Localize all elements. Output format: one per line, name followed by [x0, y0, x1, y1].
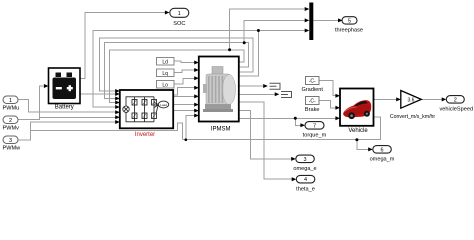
svg-text:Vehicle: Vehicle: [348, 128, 368, 134]
arrow into port3 omega_e: [291, 157, 296, 161]
svg-text:5: 5: [348, 19, 351, 25]
terminator 2: [281, 92, 292, 98]
constant Brake: [305, 97, 320, 114]
svg-text:Convert_m/s_km/hr: Convert_m/s_km/hr: [390, 114, 436, 120]
wire IPMSM omega_e out to port3: [239, 111, 294, 159]
wire mux input 2 branch: [244, 20, 308, 42]
junction dots: [185, 29, 359, 141]
terminator 1: [270, 83, 281, 89]
svg-text:PWMv: PWMv: [3, 126, 20, 132]
mux: [309, 3, 313, 41]
outport 6 omega_m: [370, 146, 395, 163]
svg-text:1: 1: [9, 98, 12, 104]
svg-text:Brake: Brake: [305, 107, 320, 113]
wire omega_m branch to port6: [357, 140, 371, 150]
wire IPMSM out6 to terminator2: [239, 93, 275, 95]
wire Gradient to Vehicle: [319, 81, 338, 96]
wire Vehicle speed out to gain: [374, 98, 400, 100]
wire feedback up into IPMSM in7: [186, 116, 196, 140]
arrow into battery: [44, 84, 49, 88]
wire PWMv to inverter: [18, 117, 119, 119]
inport 3 PWMw: [3, 136, 22, 152]
inport 1 PWMu: [3, 96, 20, 112]
svg-text:PWMu: PWMu: [3, 106, 20, 112]
svg-text:3.6: 3.6: [408, 97, 415, 103]
svg-text:omega_m: omega_m: [370, 157, 395, 163]
wire PWMu to inverter: [18, 100, 119, 113]
svg-text:6: 6: [380, 147, 383, 153]
svg-text:threephase: threephase: [335, 28, 363, 34]
svg-text:Lq: Lq: [162, 71, 168, 77]
outport 2 vehicleSpeed: [440, 96, 474, 113]
constant Gradient: [301, 77, 323, 94]
wire line A: IPMSM out2 to inverter in3: [105, 43, 249, 99]
load oval and fan: [158, 101, 168, 108]
svg-text:2: 2: [454, 97, 457, 103]
transistor cells bottom row: [132, 113, 137, 119]
arrows into Vehicle: [335, 94, 340, 98]
svg-text:torque_m: torque_m: [303, 133, 327, 139]
svg-text:PWMw: PWMw: [3, 146, 22, 152]
svg-text:3: 3: [9, 138, 12, 144]
wire inverter phase outputs to IPMSM: [173, 88, 196, 95]
svg-text:vehicleSpeed: vehicleSpeed: [440, 107, 474, 113]
wire IPMSM out5 to terminator1: [239, 85, 263, 87]
wire Vehicle omega feedback: [183, 117, 381, 140]
constant Ld: [157, 58, 175, 66]
car icon: [343, 100, 371, 119]
wire mux output to threephase: [313, 19, 340, 21]
wire battery power to inverter: [80, 93, 119, 95]
arrow into SOC port: [165, 11, 170, 15]
arrows into inverter: [115, 89, 120, 93]
svg-text:-C-: -C-: [309, 99, 316, 105]
svg-text:theta_e: theta_e: [296, 186, 315, 192]
wire Lo to IPMSM: [174, 78, 196, 84]
outport 3 omega_e: [293, 155, 316, 172]
arrowheads: [44, 7, 446, 181]
svg-text:Lo: Lo: [162, 82, 168, 88]
svg-text:IPMSM: IPMSM: [211, 127, 231, 133]
wire SOC: battery to SOC port: [80, 13, 168, 79]
wire Lq to IPMSM: [174, 70, 196, 73]
svg-text:Ld: Ld: [162, 59, 168, 65]
wire IPMSM torque out to Vehicle: [239, 117, 338, 119]
svg-text:7: 7: [313, 123, 316, 129]
wire line B: IPMSM out1 to inverter in4: [110, 50, 244, 103]
transistor cells top row: [132, 100, 137, 106]
wire line D: IPMSM out3 to inverter in1: [100, 38, 253, 91]
wire IPMSM theta out to port4: [239, 102, 295, 179]
IPMSM motor block: [199, 57, 239, 133]
svg-text:SOC: SOC: [173, 21, 185, 27]
wire under inverter (staple): [31, 123, 183, 140]
arrow into port6 omega_m: [368, 147, 373, 151]
outport 4 theta_e: [296, 175, 315, 192]
arrow into vehicleSpeed port: [442, 97, 447, 101]
svg-text:-C-: -C-: [309, 79, 316, 85]
motor icon: [203, 67, 236, 113]
outport 5 threephase: [335, 17, 363, 34]
arrow into port7 torque_m: [300, 123, 305, 127]
arrows into mux: [305, 7, 310, 11]
gain convert block: [390, 91, 436, 121]
svg-text:3: 3: [303, 157, 306, 163]
wire Brake to Vehicle: [319, 101, 338, 108]
wire torque branch to port7: [295, 118, 303, 125]
svg-text:Load: Load: [160, 103, 167, 107]
svg-text:2: 2: [9, 118, 12, 124]
wire styles: [18, 9, 445, 179]
inverter block U1: [120, 90, 173, 138]
svg-text:omega_e: omega_e: [293, 166, 316, 172]
arrow into port4 theta_e: [292, 177, 297, 181]
wire gain out to vehicleSpeed port: [421, 98, 444, 100]
arrows into IPMSM: [194, 61, 199, 65]
wire Ld to IPMSM: [174, 61, 196, 62]
svg-text:1: 1: [178, 11, 181, 17]
wire mux input 1 branch: [230, 9, 308, 50]
arrows into terminators: [263, 84, 268, 88]
constant Lq: [157, 69, 175, 77]
outport 7 torque_m: [303, 122, 327, 139]
arrow into gain: [396, 97, 401, 101]
svg-text:4: 4: [304, 177, 307, 183]
battery block: [49, 68, 81, 111]
constant Lo: [157, 81, 175, 89]
inport 2 PWMv: [3, 116, 20, 132]
wire line C: IPMSM out4 up and across to mux3 and left down to inverter: [239, 31, 308, 77]
wire PWMw to inverter: [18, 122, 119, 140]
arrow into threephase port: [338, 18, 343, 22]
svg-text:Battery: Battery: [55, 105, 74, 111]
wire branch to battery input: [40, 86, 44, 120]
svg-text:Gradient: Gradient: [301, 87, 323, 93]
vehicle block: [340, 89, 374, 135]
svg-text:Inverter: Inverter: [135, 132, 155, 138]
outport 1 SOC: [170, 8, 189, 27]
